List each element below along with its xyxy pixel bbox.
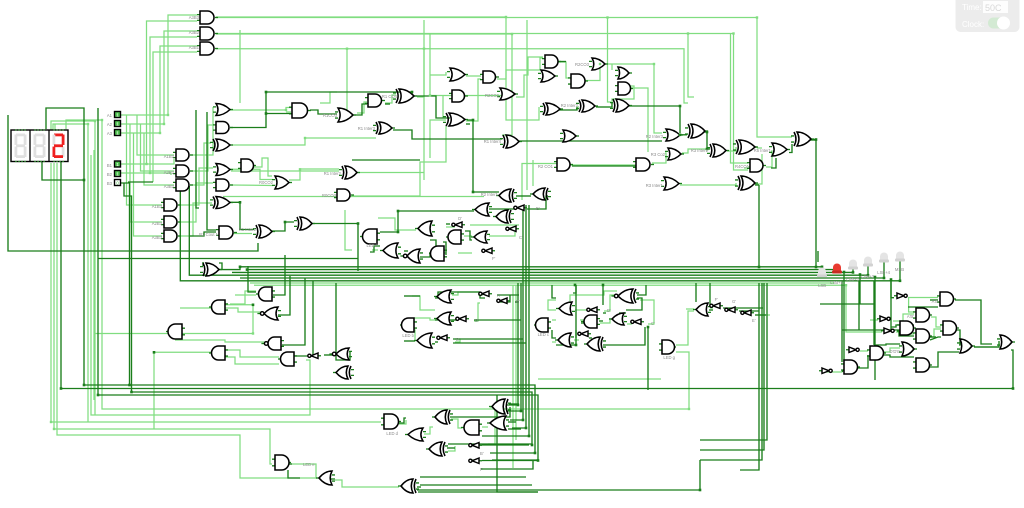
svg-text:F': F' [480,467,484,472]
svg-text:R0CO2: R0CO2 [259,180,274,185]
svg-text:A1B2: A1B2 [164,154,175,159]
svg-text:LSB+4: LSB+4 [877,270,890,275]
svg-text:R1 Inter1: R1 Inter1 [239,227,257,232]
svg-text:LSB+2: LSB+2 [846,277,859,282]
svg-text:R2 Inter2: R2 Inter2 [561,103,579,108]
svg-text:R2 CO1: R2 CO1 [538,164,554,169]
svg-text:LED c: LED c [538,332,549,337]
svg-text:1: 1 [116,172,119,177]
svg-text:B1: B1 [107,163,113,168]
svg-text:E': E' [536,206,540,211]
svg-text:1: 1 [116,162,119,167]
svg-text:1: 1 [116,131,119,136]
svg-text:LSB+3: LSB+3 [861,274,874,279]
svg-text:D'D'E: D'D'E [890,349,901,354]
svg-text:A3B2: A3B2 [164,184,175,189]
svg-text:A3: A3 [107,131,113,136]
svg-text:A': A' [497,293,501,298]
svg-text:R0CO3: R0CO3 [322,193,337,198]
svg-text:R1 Inter3: R1 Inter3 [358,126,376,131]
svg-text:LED e: LED e [303,462,315,467]
svg-text:C': C' [651,321,655,326]
svg-text:F': F' [492,256,496,261]
svg-text:F': F' [715,297,719,302]
svg-text:R5 Inter1: R5 Inter1 [754,148,772,153]
svg-text:R1 Cout 1: R1 Cout 1 [199,232,219,237]
svg-text:A2B2: A2B2 [164,170,175,175]
svg-text:MSB: MSB [895,267,904,272]
svg-text:LED b: LED b [402,333,414,338]
svg-text:R4CO1: R4CO1 [735,164,750,169]
svg-text:LED f: LED f [367,243,378,248]
svg-text:C': C' [519,235,523,240]
svg-text:D': D' [607,308,611,313]
svg-text:A3B2: A3B2 [189,30,200,35]
svg-text:R2 Inter1: R2 Inter1 [481,192,499,197]
svg-text:R1 Inter4: R1 Inter4 [484,139,502,144]
svg-text:LED d: LED d [386,431,398,436]
svg-text:G': G' [732,299,736,304]
svg-text:R1CO3: R1CO3 [323,113,338,118]
svg-text:A1B3: A1B3 [152,204,163,209]
svg-text:R2CO3: R2CO3 [575,62,590,67]
svg-text:1: 1 [116,122,119,127]
svg-text:1: 1 [116,113,119,118]
svg-text:A2B3: A2B3 [152,221,163,226]
svg-text:LSB: LSB [818,283,826,288]
svg-text:A'B': A'B' [907,314,914,319]
svg-text:LSB+1: LSB+1 [830,280,843,285]
svg-text:A2: A2 [107,122,113,127]
svg-text:E': E' [752,318,756,323]
svg-text:R1 Inter2: R1 Inter2 [324,171,342,176]
svg-text:A3B3: A3B3 [152,235,163,240]
svg-text:B3: B3 [107,181,113,186]
svg-text:B2: B2 [107,172,113,177]
svg-text:B': B' [516,299,520,304]
svg-text:R2CO2: R2CO2 [485,93,500,98]
svg-text:R3 Inter1: R3 Inter1 [646,183,664,188]
svg-text:A3B3: A3B3 [189,15,200,20]
svg-text:LED g: LED g [663,355,675,360]
svg-text:D': D' [456,337,460,342]
svg-text:0: 0 [116,181,119,186]
svg-text:A1: A1 [107,113,113,118]
svg-text:D': D' [475,318,479,323]
svg-text:R3 Co2: R3 Co2 [651,152,666,157]
svg-text:Clock:: Clock: [962,20,984,29]
svg-text:50C: 50C [985,3,1002,13]
svg-text:A'B: A'B [932,299,939,304]
svg-text:B': B' [480,451,484,456]
svg-text:R3 Inter2: R3 Inter2 [691,148,709,153]
svg-text:R1 CO4: R1 CO4 [382,94,398,99]
svg-text:R2 Inter3: R2 Inter3 [646,134,664,139]
svg-text:Time:: Time: [962,3,982,12]
svg-text:A3B1: A3B1 [189,45,200,50]
svg-text:D': D' [458,216,462,221]
